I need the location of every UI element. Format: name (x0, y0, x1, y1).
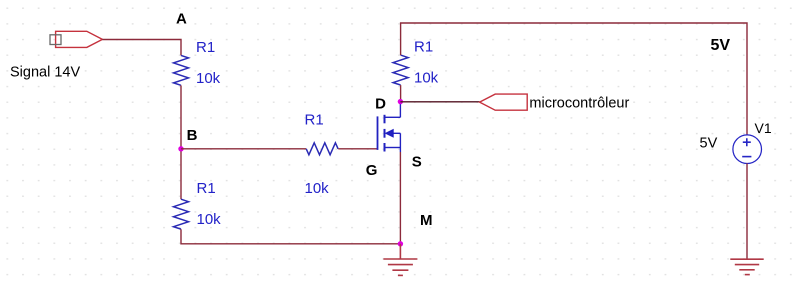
svg-text:5V: 5V (700, 136, 718, 152)
svg-text:S: S (412, 154, 422, 171)
wire top rail 5V (401, 23, 747, 135)
svg-text:D: D (375, 95, 386, 112)
voltage source V1 (733, 135, 762, 164)
svg-text:B: B (187, 127, 198, 144)
wire MOSFET source to node M (399, 152, 401, 244)
svg-text:10k: 10k (414, 70, 439, 87)
transistor Q1 n-MOSFET (378, 102, 401, 152)
node B junction dot (178, 146, 183, 151)
ground (below V1) (730, 259, 763, 274)
node D junction dot (398, 99, 403, 104)
svg-text:10k: 10k (196, 70, 221, 87)
svg-text:Signal 14V: Signal 14V (10, 65, 80, 81)
svg-text:10k: 10k (305, 180, 330, 197)
wire drain node to microcontroleur tag (400, 101, 479, 103)
wire R1 bottom to node B and on to lower resistor (180, 85, 182, 199)
svg-text:5V: 5V (711, 37, 731, 54)
svg-text:R1: R1 (197, 180, 216, 197)
resistor R1 (gate) (306, 143, 338, 155)
wire gate resistor to MOSFET gate (338, 148, 377, 150)
svg-text:G: G (366, 162, 378, 179)
wire signal tag to node A corner (102, 40, 181, 56)
ground (below node M) (383, 244, 417, 276)
svg-text:microcontrôleur: microcontrôleur (529, 96, 629, 112)
svg-text:R1: R1 (196, 39, 215, 56)
svg-text:10k: 10k (197, 211, 222, 228)
wire pull-up to drain node (400, 85, 402, 102)
svg-text:V1: V1 (755, 120, 772, 136)
wire lower resistor to bottom rail to node M (181, 229, 400, 244)
node M junction dot (398, 241, 403, 246)
input tag Signal (50, 31, 102, 47)
svg-text:A: A (176, 11, 187, 28)
resistor R1 (A to B) (174, 55, 189, 85)
svg-text:R1: R1 (414, 39, 433, 56)
svg-text:R1: R1 (305, 112, 324, 129)
wire V1 to ground (746, 163, 748, 259)
output tag microcontroleur (480, 94, 528, 110)
resistor R1 (drain pull-up) (393, 55, 408, 85)
svg-text:M: M (420, 212, 433, 229)
resistor R1 (B to bottom rail) (174, 199, 189, 229)
wire node B to gate resistor (181, 148, 306, 150)
